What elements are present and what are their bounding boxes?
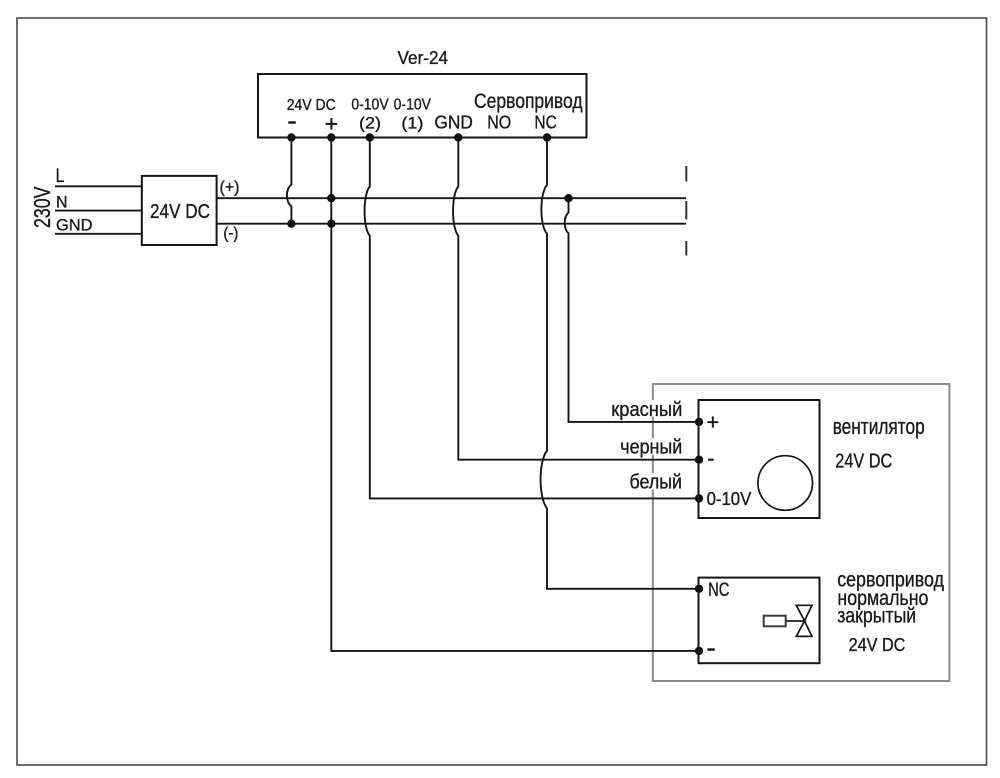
svg-text:(+): (+) [220, 178, 240, 197]
svg-text:NC: NC [534, 111, 556, 132]
svg-text:(-): (-) [223, 224, 238, 243]
svg-text:0-10V: 0-10V [394, 97, 432, 114]
svg-text:24V DC: 24V DC [835, 451, 892, 473]
svg-text:L: L [56, 165, 65, 187]
svg-text:0-10V: 0-10V [707, 488, 752, 509]
svg-text:GND: GND [434, 112, 473, 133]
svg-text:N: N [56, 193, 68, 212]
svg-text:GND: GND [56, 217, 93, 235]
svg-text:NC: NC [708, 580, 729, 601]
svg-text:красный: красный [611, 399, 682, 421]
svg-text:24V DC: 24V DC [150, 201, 210, 223]
svg-text:вентилятор: вентилятор [833, 414, 925, 439]
svg-text:+: + [325, 111, 339, 137]
svg-text:черный: черный [620, 436, 682, 458]
svg-text:Ver-24: Ver-24 [398, 47, 449, 68]
svg-text:+: + [706, 410, 719, 435]
svg-text:белый: белый [630, 471, 683, 493]
svg-text:230V: 230V [29, 186, 55, 228]
svg-text:NO: NO [487, 111, 511, 132]
svg-text:закрытый: закрытый [837, 604, 916, 628]
svg-text:24V DC: 24V DC [849, 634, 906, 655]
svg-text:0-10V: 0-10V [351, 97, 389, 114]
svg-text:(1): (1) [401, 113, 423, 132]
svg-text:Сервопривод: Сервопривод [474, 89, 583, 113]
svg-text:(2): (2) [359, 113, 381, 132]
